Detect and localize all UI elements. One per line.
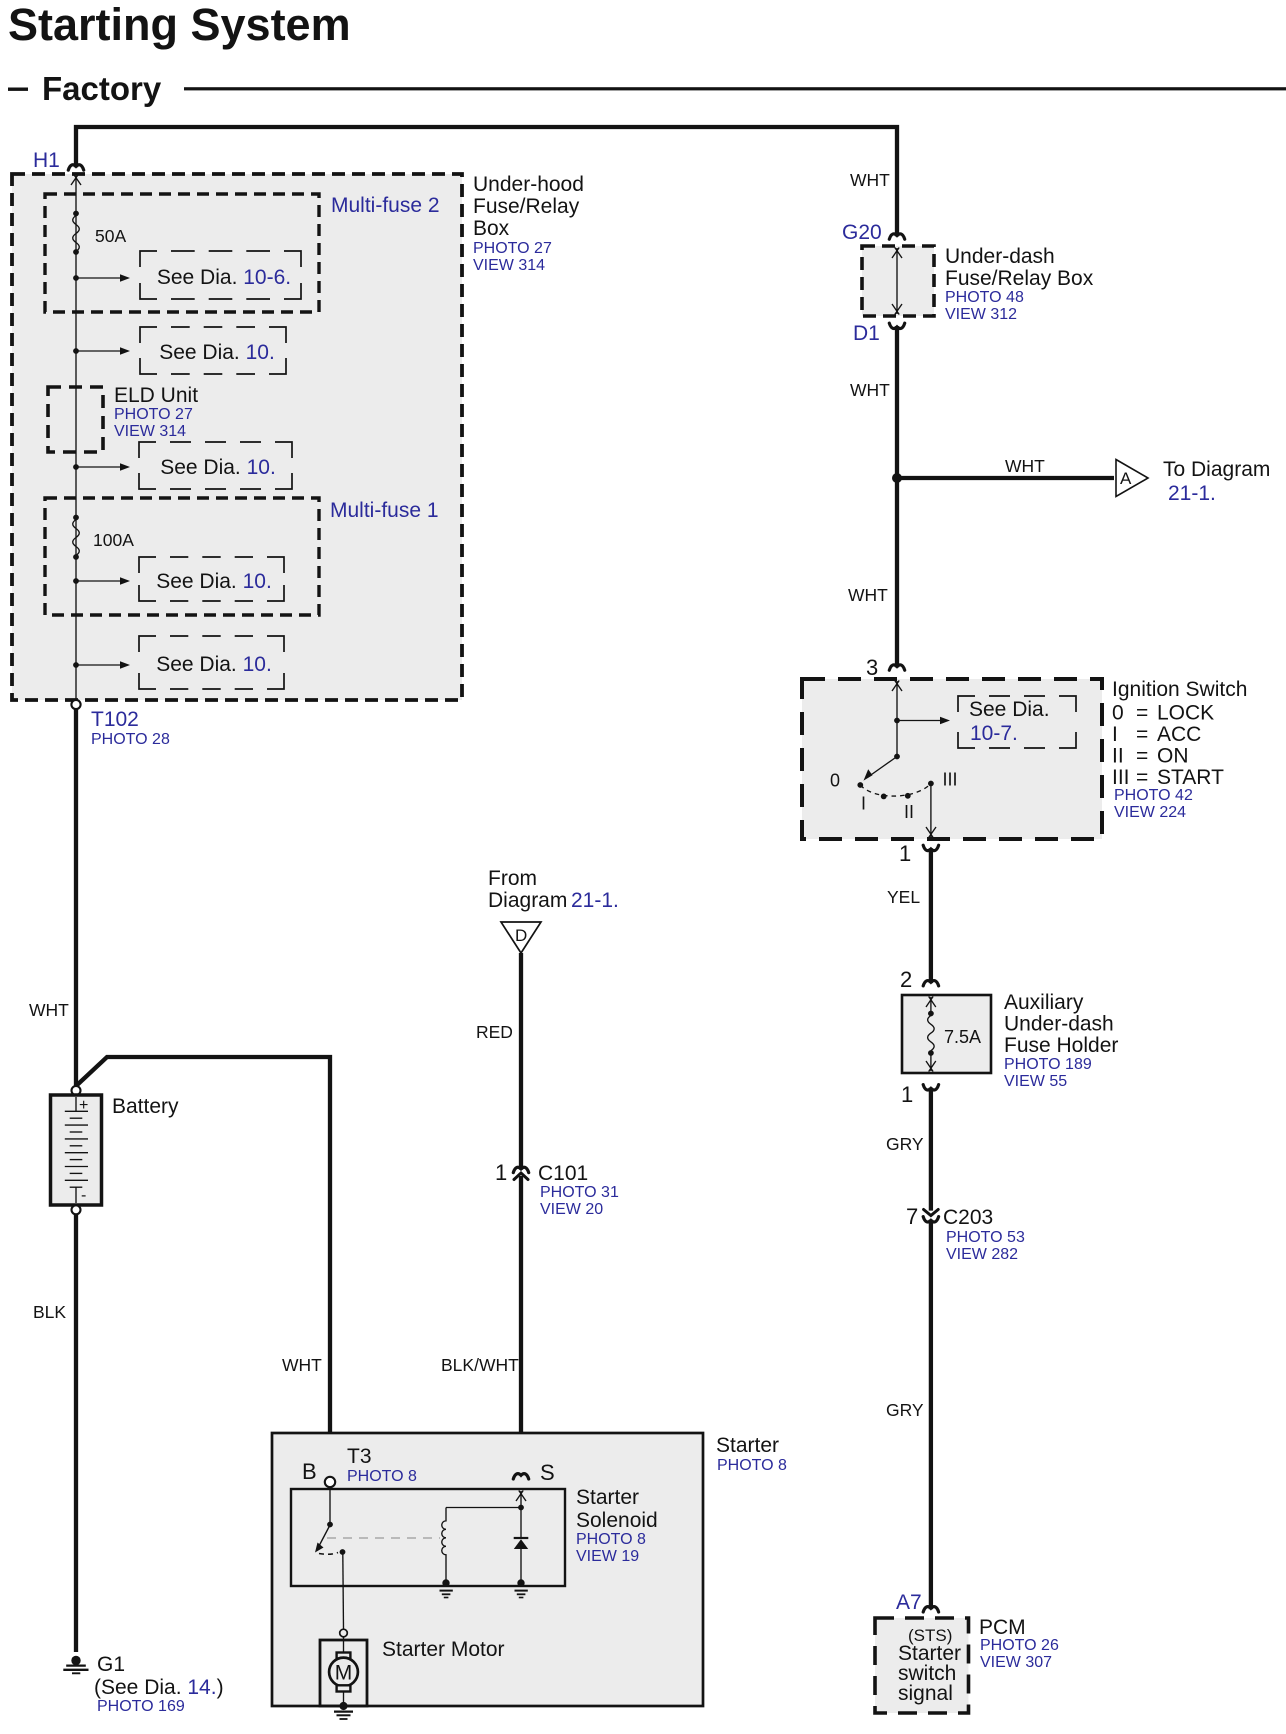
svg-text:WHT: WHT <box>850 170 890 190</box>
PCM STS starter switch signal label <box>898 1626 961 1705</box>
wire internal bus of under-hood box <box>75 176 77 700</box>
svg-text:VIEW 282: VIEW 282 <box>946 1246 1018 1263</box>
wire branch arrow 4 <box>76 577 130 585</box>
wire branch arrow 2 <box>76 347 130 355</box>
svg-text:C101: C101 <box>538 1162 588 1185</box>
wire branch arrow 3 <box>76 463 130 471</box>
ignition switch box <box>802 679 1102 839</box>
svg-text:Ignition Switch: Ignition Switch <box>1112 678 1247 701</box>
switch wiper pivot node <box>894 754 900 760</box>
motor ground node <box>339 1702 347 1710</box>
svg-text:1: 1 <box>899 841 911 866</box>
svg-text:ELD Unit: ELD Unit <box>114 384 198 407</box>
svg-text:PHOTO 8: PHOTO 8 <box>576 1531 646 1548</box>
svg-text:1: 1 <box>495 1160 507 1185</box>
svg-text:Starting System: Starting System <box>8 0 351 50</box>
Starter label <box>716 1434 787 1474</box>
svg-text:G1: G1 <box>97 1653 125 1676</box>
fuse 50A <box>73 211 80 255</box>
PCM label <box>979 1616 1059 1671</box>
wire RED from diagram D to C101 <box>519 953 523 1170</box>
svg-text:Factory: Factory <box>42 70 162 107</box>
svg-text:7: 7 <box>906 1204 918 1229</box>
svg-text:VIEW 307: VIEW 307 <box>980 1654 1052 1671</box>
svg-text:PHOTO 27: PHOTO 27 <box>473 240 552 257</box>
diode ground node <box>517 1579 524 1586</box>
node branch to See Dia 10 (fifth) <box>73 662 79 668</box>
svg-text:See Dia. 10.: See Dia. 10. <box>156 653 272 676</box>
svg-text:See Dia.: See Dia. <box>969 698 1050 721</box>
off-page arrow D <box>501 922 541 953</box>
svg-text:0=LOCK: 0=LOCK <box>1112 702 1214 725</box>
terminal B circle <box>325 1477 335 1487</box>
node branch to See Dia 10 (fourth) <box>73 578 79 584</box>
fuse 7.5A element with pin arrows <box>926 997 936 1072</box>
svg-text:I: I <box>861 794 866 814</box>
connector C101 (inline pair) <box>513 1167 528 1179</box>
Under-hood Fuse/Relay Box label <box>473 173 584 274</box>
svg-text:Fuse/Relay Box: Fuse/Relay Box <box>945 267 1094 290</box>
svg-text:See Dia. 10.: See Dia. 10. <box>156 570 272 593</box>
switch position 0 contact <box>857 782 863 788</box>
svg-text:7.5A: 7.5A <box>944 1027 981 1047</box>
Auxiliary Under-dash Fuse Holder label <box>1004 991 1118 1090</box>
connector H1 (female cup) <box>68 165 83 170</box>
svg-text:1: 1 <box>901 1082 913 1107</box>
svg-text:GRY: GRY <box>886 1400 924 1420</box>
svg-text:PHOTO 8: PHOTO 8 <box>347 1468 417 1485</box>
auxiliary under-dash fuse holder box <box>902 995 991 1073</box>
svg-text:GRY: GRY <box>886 1134 924 1154</box>
battery positive terminal <box>72 1086 81 1095</box>
off-page arrow A <box>1116 460 1148 497</box>
svg-text:PHOTO 31: PHOTO 31 <box>540 1184 619 1201</box>
svg-text:Under-dash: Under-dash <box>1004 1013 1114 1036</box>
Multi-fuse 2 box <box>45 194 319 312</box>
svg-text:WHT: WHT <box>29 1000 69 1020</box>
wire branch arrow 5 <box>76 661 130 669</box>
pin 3 entry arrow <box>892 681 902 692</box>
svg-text:PHOTO 53: PHOTO 53 <box>946 1229 1025 1246</box>
wire WHT branch to diagram 21-1 <box>897 476 1114 480</box>
Starter Solenoid label <box>576 1486 658 1565</box>
svg-text:PHOTO 189: PHOTO 189 <box>1004 1056 1092 1073</box>
svg-text:I=ACC: I=ACC <box>1112 723 1201 746</box>
position labels 0 I II III <box>830 770 958 823</box>
Under-dash Fuse/Relay Box <box>862 246 934 316</box>
svg-text:VIEW 314: VIEW 314 <box>114 423 186 440</box>
svg-text:Box: Box <box>473 217 510 240</box>
ELD Unit box <box>48 387 103 452</box>
svg-text:BLK/WHT: BLK/WHT <box>441 1355 519 1375</box>
motor terminal circle <box>340 1629 348 1637</box>
connector pin 3 (female cup) <box>889 665 904 670</box>
svg-text:Battery: Battery <box>112 1095 179 1118</box>
diode D (clamp) <box>514 1538 529 1581</box>
svg-text:S: S <box>540 1460 555 1485</box>
svg-text:A7: A7 <box>896 1591 922 1614</box>
Ignition Switch legend <box>1112 678 1247 821</box>
svg-text:VIEW 224: VIEW 224 <box>1114 804 1186 821</box>
solenoid contact wire from B <box>329 1487 331 1524</box>
wire BLK/WHT C101 to starter S <box>519 1176 523 1476</box>
svg-text:21-1.: 21-1. <box>571 889 619 912</box>
node junction to diagram A <box>892 473 902 483</box>
Multi-fuse 1 box <box>45 498 319 615</box>
battery BAT <box>51 1095 102 1205</box>
svg-text:See Dia. 10.: See Dia. 10. <box>159 341 275 364</box>
svg-text:-: - <box>81 1187 86 1204</box>
svg-text:2: 2 <box>900 967 912 992</box>
switch position I contact <box>881 794 887 800</box>
svg-text:M: M <box>335 1662 353 1685</box>
ground (motor) <box>334 1712 353 1719</box>
wire GRY C203 to PCM A7 <box>929 1220 933 1610</box>
pin H1 entry arrow into box <box>71 175 81 186</box>
From Diagram 21-1 label <box>488 867 619 912</box>
svg-text:T102: T102 <box>91 708 139 731</box>
starter motor box <box>320 1640 367 1706</box>
node contact B <box>327 1522 333 1528</box>
svg-text:Multi-fuse 2: Multi-fuse 2 <box>331 194 440 217</box>
svg-text:III=START: III=START <box>1112 766 1224 789</box>
T3 label <box>347 1445 417 1485</box>
To Diagram 21-1 label <box>1163 458 1270 505</box>
connector A7 (female cup) <box>923 1607 938 1612</box>
svg-text:WHT: WHT <box>1005 456 1045 476</box>
wire solenoid output to starter motor <box>342 1553 345 1629</box>
node solenoid output contact <box>340 1549 346 1555</box>
svg-text:PHOTO 26: PHOTO 26 <box>980 1637 1059 1654</box>
coil ground node <box>442 1579 449 1586</box>
svg-text:PCM: PCM <box>979 1616 1026 1639</box>
See Dia. 10. reference box 3 <box>139 442 292 489</box>
ground (coil) <box>440 1591 453 1598</box>
Under-hood Fuse/Relay Box <box>12 174 462 700</box>
svg-text:T3: T3 <box>347 1445 372 1468</box>
svg-text:Fuse/Relay: Fuse/Relay <box>473 195 580 218</box>
svg-text:Multi-fuse 1: Multi-fuse 1 <box>330 499 439 522</box>
wire position III to pin 1 with exit arrow <box>926 784 936 838</box>
PCM box <box>875 1618 969 1713</box>
svg-text:B: B <box>302 1459 317 1484</box>
svg-text:Solenoid: Solenoid <box>576 1509 658 1532</box>
svg-text:PHOTO 42: PHOTO 42 <box>1114 787 1193 804</box>
switch position III contact <box>928 781 934 787</box>
wire WHT main feed (battery branch top rail H1 to G20) <box>76 127 897 236</box>
motor M assembly <box>329 1637 358 1703</box>
wire BLK battery to G1 <box>74 1214 78 1652</box>
ELD Unit label <box>114 384 198 440</box>
svg-text:3: 3 <box>866 655 878 680</box>
See Dia. 10-6. reference box <box>140 251 301 299</box>
svg-text:D1: D1 <box>853 322 880 345</box>
svg-text:From: From <box>488 867 537 890</box>
connector pin 1 (female cup up) <box>923 845 938 850</box>
wire through under-dash box with pin arrows <box>892 248 902 315</box>
svg-text:C203: C203 <box>943 1206 993 1229</box>
See Dia. 10-7. reference box <box>958 696 1076 748</box>
svg-text:PHOTO 27: PHOTO 27 <box>114 406 193 423</box>
svg-text:Under-hood: Under-hood <box>473 173 584 196</box>
node branch to See Dia 10-6 <box>73 275 79 281</box>
connector T102 (terminal circle) <box>71 700 80 709</box>
svg-text:VIEW 312: VIEW 312 <box>945 306 1017 323</box>
svg-text:WHT: WHT <box>850 380 890 400</box>
wire WHT T102 to battery <box>74 709 78 1086</box>
wire GRY fuse holder to C203 <box>929 1088 933 1211</box>
svg-text:II=ON: II=ON <box>1112 745 1189 768</box>
svg-text:Under-dash: Under-dash <box>945 245 1055 268</box>
svg-text:See Dia. 10-6.: See Dia. 10-6. <box>157 266 291 289</box>
svg-text:PHOTO 8: PHOTO 8 <box>717 1457 787 1474</box>
Under-dash Fuse/Relay Box label <box>945 245 1094 323</box>
svg-text:signal: signal <box>898 1682 953 1705</box>
C101 label <box>538 1162 619 1218</box>
svg-text:10-7.: 10-7. <box>970 722 1018 745</box>
connector pin 1 below fuse holder (female cup up) <box>923 1085 938 1090</box>
svg-text:Starter Motor: Starter Motor <box>382 1638 505 1661</box>
svg-text:(See Dia. 14.): (See Dia. 14.) <box>94 1676 224 1699</box>
ignition switch internal wire from pin 3 <box>896 681 898 757</box>
svg-text:21-1.: 21-1. <box>1168 482 1216 505</box>
connector pin 2 (female cup) <box>923 981 938 986</box>
svg-text:A: A <box>1120 469 1132 488</box>
ground G1 <box>63 1656 88 1674</box>
C203 label <box>943 1206 1025 1263</box>
svg-text:PHOTO 28: PHOTO 28 <box>91 731 170 748</box>
wire branch arrow 1 <box>76 274 130 282</box>
svg-text:YEL: YEL <box>887 887 920 907</box>
wire WHT battery positive to starter B <box>76 1057 330 1476</box>
wire arrow to See Dia 10-7 <box>897 717 950 725</box>
svg-text:PHOTO 48: PHOTO 48 <box>945 289 1024 306</box>
node branch to See Dia 10 (third) <box>73 464 79 470</box>
battery negative terminal <box>72 1205 81 1214</box>
svg-text:D: D <box>515 926 527 945</box>
See Dia. 10. reference box 4 <box>139 557 284 601</box>
svg-text:PHOTO 169: PHOTO 169 <box>97 1698 185 1715</box>
switch arm with arrow <box>315 1525 330 1553</box>
svg-text:BLK: BLK <box>33 1302 66 1322</box>
mechanical linkage dashed line <box>327 1537 440 1539</box>
svg-text:Starter: Starter <box>716 1434 779 1457</box>
svg-text:WHT: WHT <box>848 585 888 605</box>
node branch to See Dia 10 (second) <box>73 348 79 354</box>
switch wiper arm arrow to 0 <box>864 757 898 781</box>
node coil feed <box>518 1505 524 1511</box>
T102 label <box>91 708 170 748</box>
svg-text:VIEW 314: VIEW 314 <box>473 257 545 274</box>
wire WHT D1 to ignition switch <box>895 326 899 667</box>
svg-text:H1: H1 <box>33 149 60 172</box>
svg-text:Auxiliary: Auxiliary <box>1004 991 1084 1014</box>
svg-text:Diagram: Diagram <box>488 889 567 912</box>
svg-text:To Diagram: To Diagram <box>1163 458 1270 481</box>
wire YEL ignition to fuse holder <box>929 848 933 983</box>
fuse 100A <box>73 515 80 560</box>
See Dia. 10. reference box 5 <box>139 636 284 689</box>
svg-text:See Dia. 10.: See Dia. 10. <box>160 456 276 479</box>
subtitle Factory <box>8 70 1286 107</box>
switch position arc (dashed) <box>860 784 931 797</box>
svg-text:WHT: WHT <box>282 1355 322 1375</box>
svg-text:VIEW 20: VIEW 20 <box>540 1201 603 1218</box>
ground (diode) <box>515 1591 528 1598</box>
svg-text:100A: 100A <box>93 530 134 550</box>
See Dia. 10. reference box 2 <box>140 327 286 374</box>
switch position II contact <box>905 793 911 799</box>
svg-text:Starter: Starter <box>576 1486 639 1509</box>
switch arm dashed segment <box>319 1553 338 1555</box>
svg-text:G20: G20 <box>842 221 882 244</box>
svg-text:RED: RED <box>476 1022 513 1042</box>
svg-text:VIEW 19: VIEW 19 <box>576 1548 639 1565</box>
node ignition branch <box>894 718 900 724</box>
svg-text:VIEW 55: VIEW 55 <box>1004 1073 1067 1090</box>
S entry arrow and wire <box>516 1491 526 1538</box>
svg-text:Fuse Holder: Fuse Holder <box>1004 1034 1118 1057</box>
starter solenoid box <box>291 1489 565 1586</box>
connector G20 (female cup) <box>889 234 904 239</box>
starter box <box>272 1433 703 1706</box>
solenoid coil <box>442 1508 521 1582</box>
connector C203 (inline pair) <box>923 1210 938 1223</box>
connector D1 (female cup up) <box>889 323 904 328</box>
connector S (female cup) <box>513 1474 528 1479</box>
G1 label <box>94 1653 224 1715</box>
svg-text:II: II <box>904 802 914 822</box>
svg-text:III: III <box>943 770 958 790</box>
svg-text:50A: 50A <box>95 226 126 246</box>
svg-text:0: 0 <box>830 771 840 791</box>
